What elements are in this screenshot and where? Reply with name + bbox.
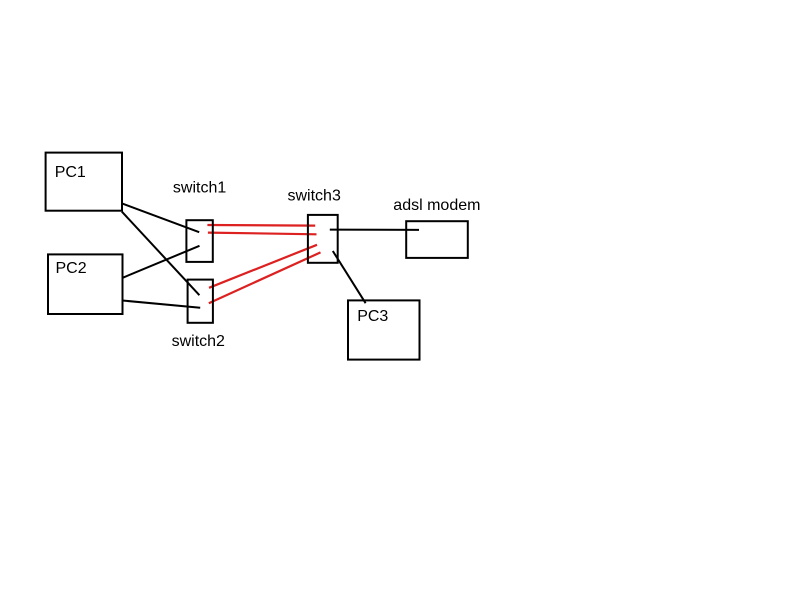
PC1 box — [46, 153, 122, 211]
red wire switch1 to switch3 lower — [208, 233, 317, 235]
svg-text:PC3: PC3 — [357, 308, 388, 325]
wire PC1 to switch1 — [122, 203, 199, 232]
switch2 box — [188, 280, 213, 323]
svg-text:PC2: PC2 — [56, 260, 87, 277]
svg-text:PC1: PC1 — [55, 164, 86, 181]
wire PC2 to switch1 — [122, 246, 199, 278]
switch1 box — [186, 220, 212, 262]
svg-text:switch2: switch2 — [172, 333, 225, 350]
switch3 box — [308, 215, 338, 263]
red wire switch1 to switch3 upper — [207, 224, 315, 227]
wire switch3 to PC3 — [333, 251, 366, 303]
svg-text:adsl modem: adsl modem — [393, 197, 480, 214]
red wire switch2 to switch3 lower — [209, 252, 321, 303]
PC2 box — [48, 254, 123, 314]
wire PC1 to switch2 — [122, 212, 200, 296]
PC3 box — [348, 300, 420, 359]
red wire switch2 to switch3 upper — [209, 245, 317, 288]
wire PC2 to switch2 — [122, 301, 200, 308]
svg-text:switch3: switch3 — [288, 188, 341, 205]
adsl modem box — [406, 221, 468, 258]
svg-text:switch1: switch1 — [173, 180, 226, 197]
wire switch3 to adsl modem — [330, 229, 419, 231]
